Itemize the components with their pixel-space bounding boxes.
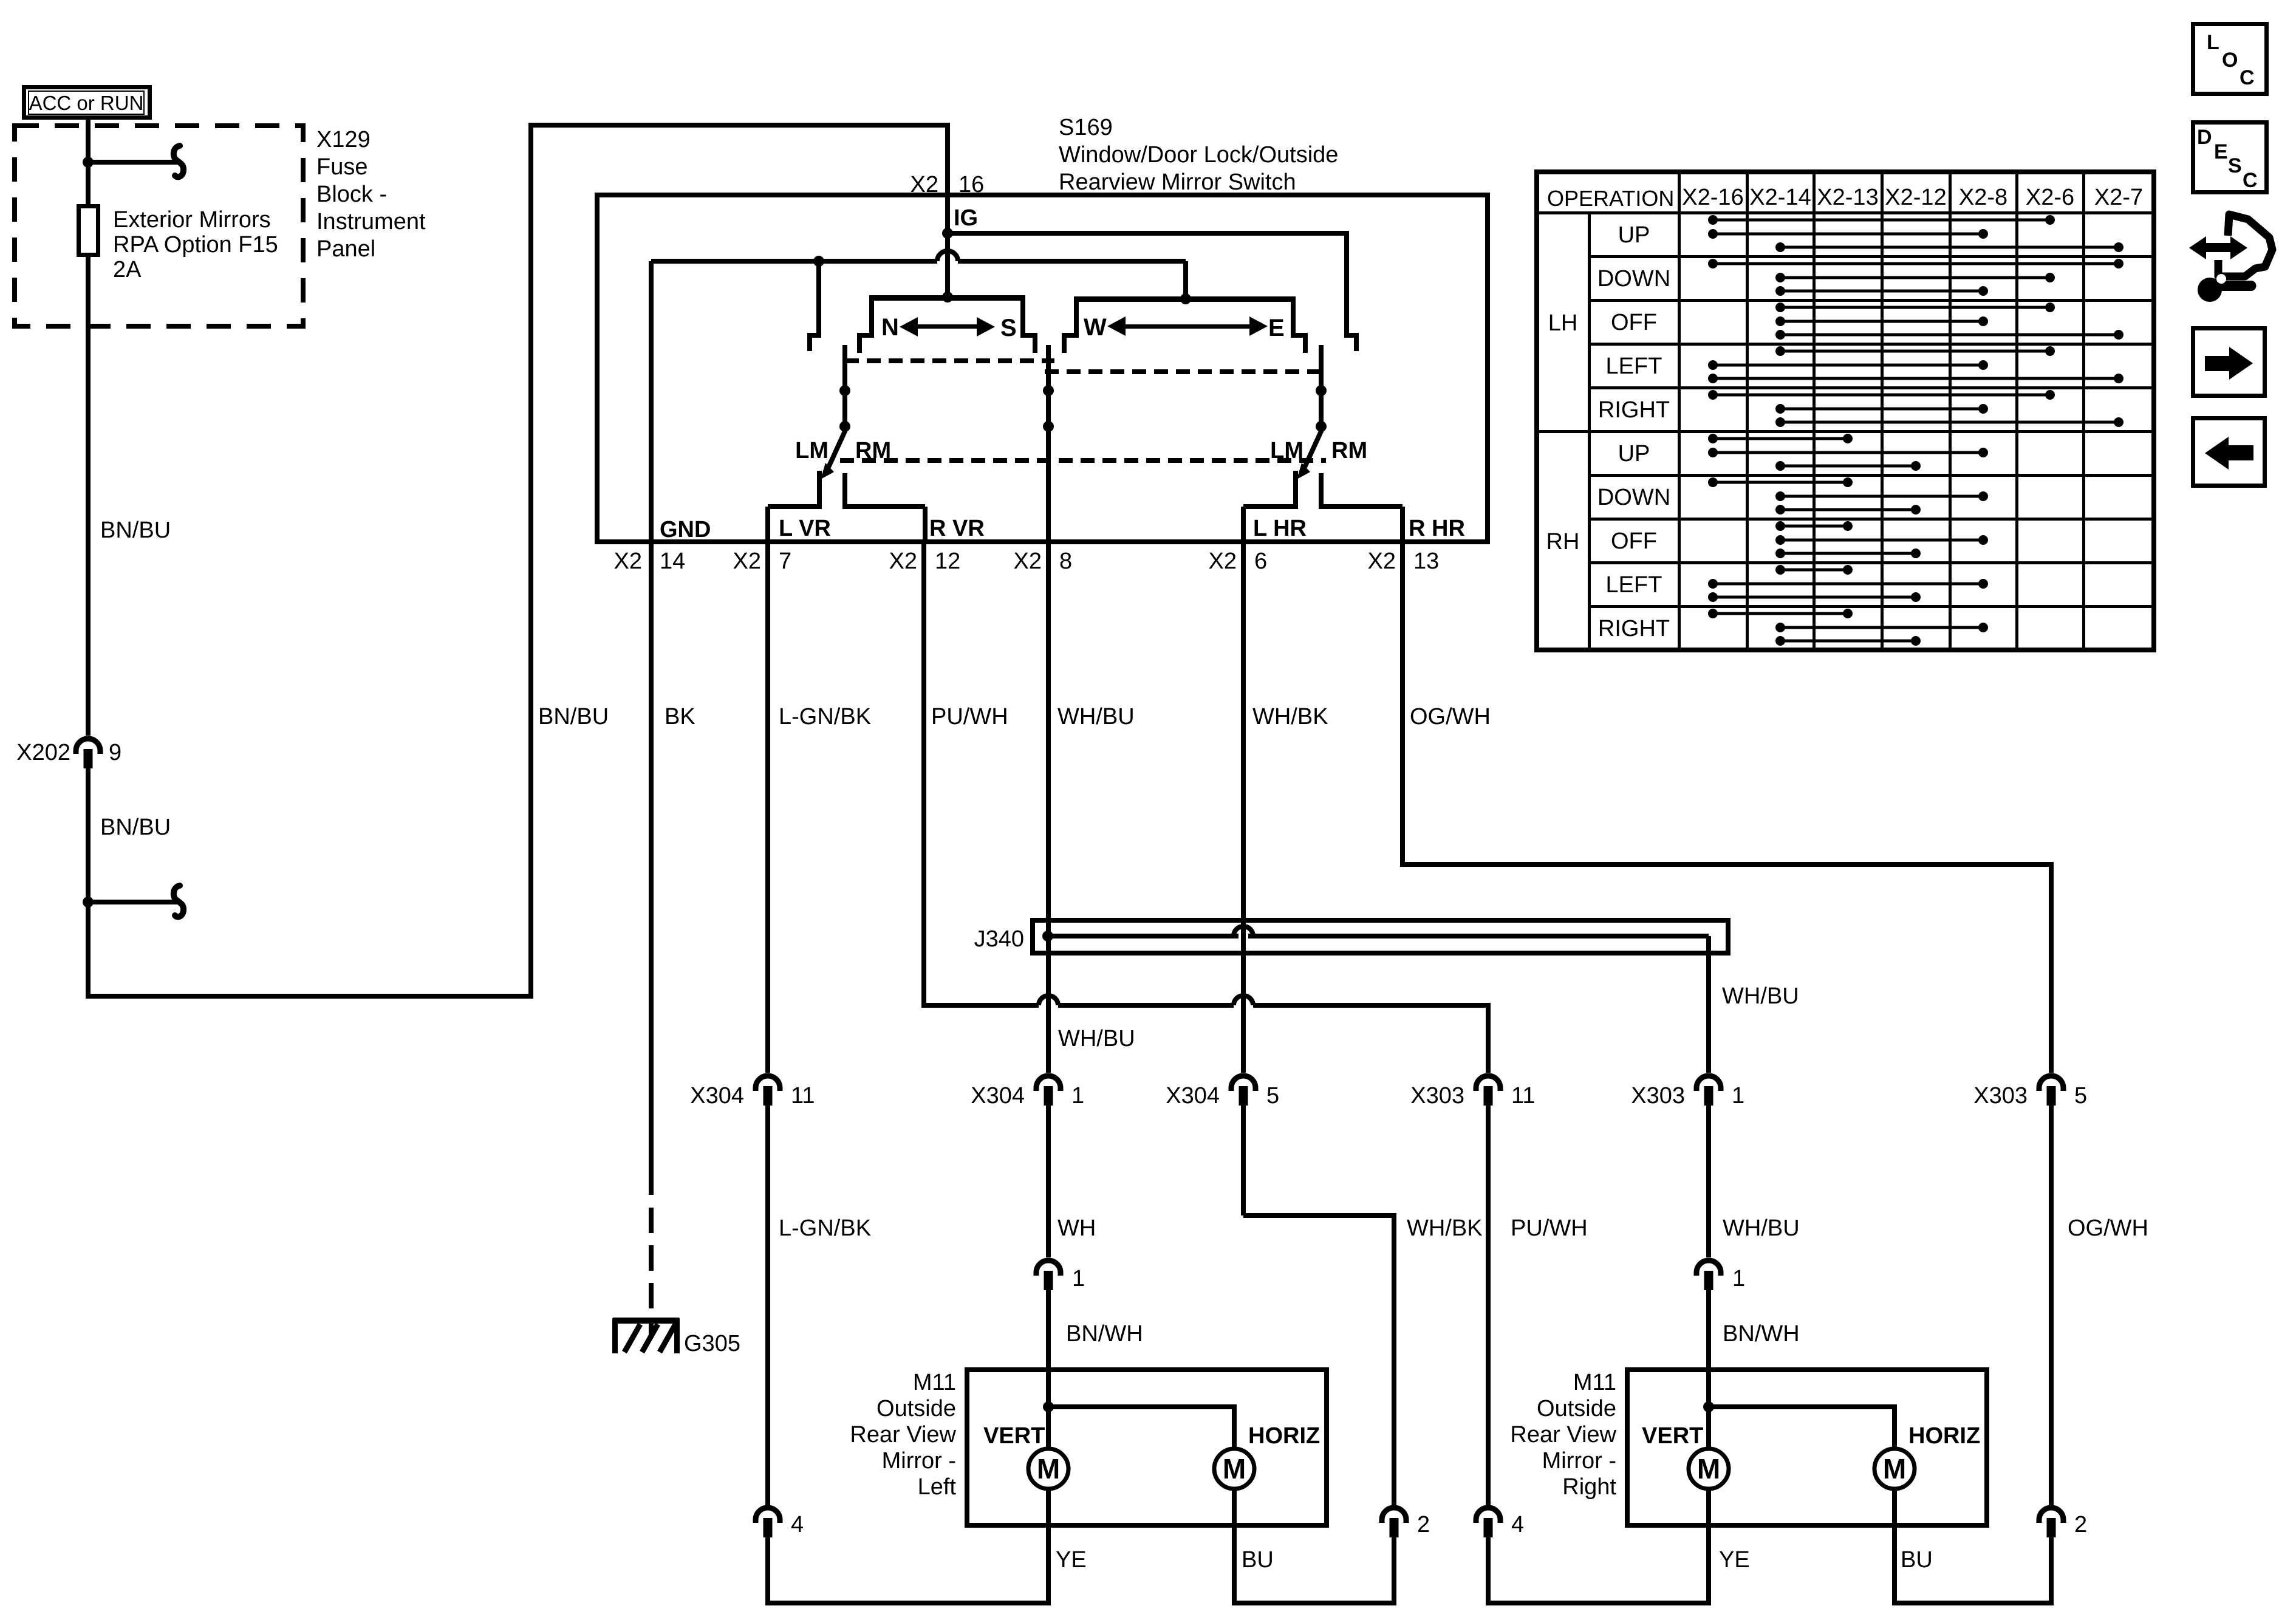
svg-text:M: M [1697,1453,1720,1485]
svg-text:M: M [1037,1453,1060,1485]
svg-text:M: M [1883,1453,1906,1485]
svg-text:M: M [1223,1453,1246,1485]
